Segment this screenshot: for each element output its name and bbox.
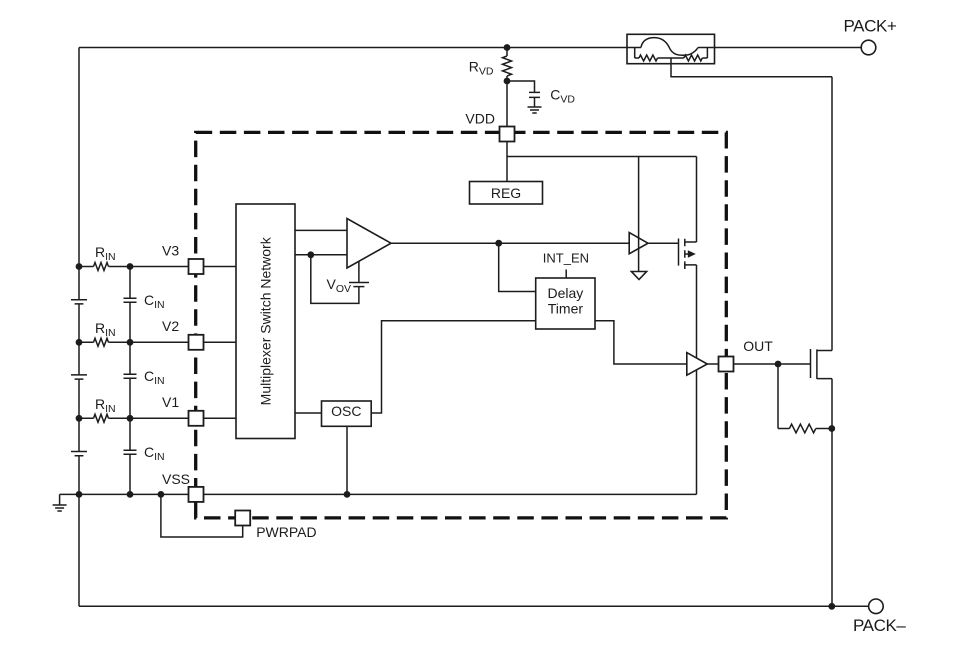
- svg-text:VDD: VDD: [465, 111, 495, 127]
- svg-text:VSS: VSS: [162, 471, 190, 487]
- svg-text:PACK+: PACK+: [844, 16, 897, 35]
- svg-text:V1: V1: [162, 394, 179, 410]
- svg-text:OSC: OSC: [331, 403, 361, 419]
- svg-text:REG: REG: [491, 185, 521, 201]
- svg-text:PWRPAD: PWRPAD: [256, 524, 316, 540]
- svg-text:Multiplexer Switch Network: Multiplexer Switch Network: [257, 236, 273, 405]
- svg-text:INT_EN: INT_EN: [543, 250, 589, 265]
- svg-text:V2: V2: [162, 318, 179, 334]
- svg-text:Timer: Timer: [548, 301, 584, 317]
- svg-text:V3: V3: [162, 242, 179, 258]
- svg-text:OUT: OUT: [743, 338, 773, 354]
- svg-text:PACK–: PACK–: [853, 616, 906, 635]
- svg-text:Delay: Delay: [548, 285, 584, 301]
